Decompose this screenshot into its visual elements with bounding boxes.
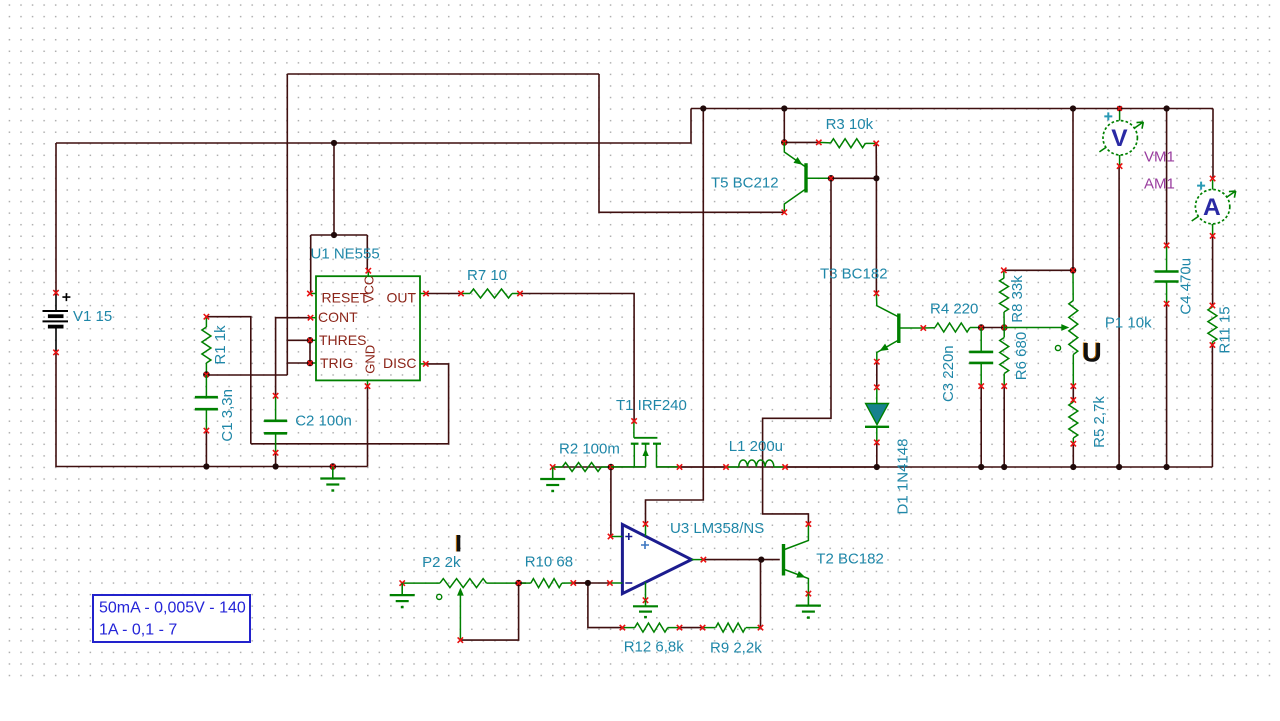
node R3-T3 junction [873,175,879,181]
wire TRIG branch [287,362,310,364]
wire inverting node down to R12 [588,583,623,628]
pin L1 right [782,464,787,469]
node inverting junction [585,580,591,586]
pin P1 bottom [1071,383,1076,388]
node P1 rail junction [1070,105,1076,111]
resistor R2 [553,463,611,472]
resistor R11 [1208,306,1217,346]
pin U1 RESET [310,293,316,295]
pin VM1 minus [1117,163,1122,168]
svg-text:VCC: VCC [362,276,377,303]
resistor R3 [819,139,876,148]
node T5 base junction [828,175,835,182]
pin R3 right [874,141,879,146]
pin R12 right [677,625,682,630]
wire C4 top from rail [1166,109,1168,246]
wire R10 right to inverting node [573,582,588,584]
pin T3 collector [874,291,879,296]
resistor R9 [703,623,761,632]
op-amp U1 NE555 box [316,276,420,380]
resistor R12 [622,623,679,632]
svg-text:50mA - 0,005V - 140: 50mA - 0,005V - 140 [99,600,246,617]
pin U3 inverting input [607,580,612,585]
svg-text:V1 15: V1 15 [73,308,112,325]
pin R3 left [816,140,821,145]
pin T2 collector [806,521,811,526]
pin R5 top [1071,397,1076,402]
svg-text:THRES: THRES [319,332,366,348]
pin battery minus [53,350,58,355]
resistor R1 [202,317,211,375]
wire P2 wiper return [460,583,518,640]
node R2-T1 junction [608,464,615,471]
wire R4 node link [981,327,1004,329]
pin R9 right [758,625,763,630]
wire T5 base to T3 node [831,177,876,179]
wire R7 to T1 gate [520,294,634,422]
pin R10 right [571,580,576,585]
pin C2 top [273,393,278,398]
node top rail junction x784.3 [781,105,787,111]
wire output node to T2 base [761,559,780,561]
wire T5 base node down and to T2 collector [763,178,831,524]
pin T1 drain [677,464,682,469]
svg-text:CONT: CONT [318,309,358,325]
node R1 bottom junction [203,371,210,378]
pin U1 THRES [310,339,316,341]
resistor R7 [461,289,520,298]
svg-text:GND: GND [362,345,377,374]
wire staple right leg to VCC pin [366,235,368,271]
node top rail junction x703.3 [700,105,706,111]
svg-text:AM1: AM1 [1144,176,1175,193]
svg-text:R6 680: R6 680 [1013,332,1030,380]
node bus junction C3 [978,464,984,470]
svg-text:I: I [455,531,462,558]
wire AM1 bottom to R11 top [1212,236,1214,306]
pin C2 bottom [273,450,278,455]
pin U1 OUT [420,293,426,295]
pin T1 gate [631,418,636,423]
potentiometer P2 [402,579,518,641]
ground for U1/C1/C2 bus [330,463,337,470]
svg-text:C2 100n: C2 100n [295,413,352,430]
svg-text:R10 68: R10 68 [525,554,573,571]
wire R1 top to DISC loop [206,317,250,444]
svg-text:R4 220: R4 220 [930,301,978,318]
node T5 emitter junction [781,139,788,146]
node bus junction C1 [203,463,209,469]
wire T5 emitter node to R3 left [784,141,819,143]
pin U1 VCC [367,271,369,277]
node P1 top junction [1070,267,1077,274]
node C4 rail junction [1164,105,1170,111]
pin R2 left [550,464,555,469]
pin R12 left [620,625,625,630]
pin U1 DISC [420,363,426,365]
node bus junction R5 [1070,464,1076,470]
node output junction [758,557,764,563]
ground at U3 V- [645,600,647,605]
pin U1 GND [367,380,369,386]
pin R4 left [921,325,926,330]
pin U1 CONT [311,317,317,319]
transistor T3 BC182 [876,293,923,361]
svg-text:A: A [1203,194,1221,221]
pin U3 V+ [643,521,648,526]
potentiometer P1 [1004,270,1078,386]
wire OUT to R7 [426,293,461,295]
svg-text:T5 BC212: T5 BC212 [711,175,779,192]
wire R9 right up to output node [760,560,762,628]
pin T5 collector [782,210,787,215]
pin D1 cathode [874,440,879,445]
wire R6 bottom to bus [1003,386,1005,467]
text box measurement notes [93,595,250,642]
wire rail corner down to AM1 [1212,109,1214,179]
diode D1 1N4148 [865,387,889,442]
svg-text:C3 220n: C3 220n [940,345,957,402]
wire C3 bottom to bus [980,386,982,467]
svg-text:L1 200u: L1 200u [729,438,783,455]
wire P1 top node riser to top rail [1072,109,1074,271]
svg-text:R12 6,8k: R12 6,8k [624,639,685,656]
pin battery plus [53,290,58,295]
pin P2 wiper [458,637,463,642]
wire T5 emitter node to top rail [783,109,785,143]
svg-text:T3 BC182: T3 BC182 [820,266,888,283]
capacitor C2 [264,396,287,453]
pin L1 left [723,464,728,469]
wire P1 bottom to R5 top [1072,386,1074,400]
svg-text:R2 100m: R2 100m [559,441,620,458]
wire inverting input horizontal [573,582,610,584]
wire long riser x703.3 top rail to op-amp V+ [646,109,704,525]
svg-text:T2 BC182: T2 BC182 [816,551,884,568]
svg-text:C1 3,3n: C1 3,3n [219,389,236,442]
pin R7 left [458,291,463,296]
wire C1 bottom to bus [205,431,207,467]
pin T3 emitter [874,359,879,364]
svg-text:R3 10k: R3 10k [826,116,874,133]
wire output ground bus y467 left of T1 gap [553,466,646,468]
wire THRES-TRIG tie [309,340,311,363]
capacitor C1 [195,375,218,431]
pin R8 top [1001,268,1006,273]
pin R7 right [517,291,522,296]
node P2 right junction [515,580,522,587]
wire R3 right down to T3 collector node [875,143,877,178]
svg-text:P1 10k: P1 10k [1105,315,1152,332]
pin AM1 plus [1210,176,1215,181]
pin R11 top [1210,303,1215,308]
wire R12 to R9 [680,627,703,629]
pin U3 V- [643,598,648,603]
pin R5 bottom [1071,441,1076,446]
svg-text:R8 33k: R8 33k [1009,275,1026,323]
wire DISC loop bottom [251,364,449,444]
svg-text:1A - 0,1 - 7: 1A - 0,1 - 7 [99,622,177,639]
wire output ground bus y467 right of T1 gap [657,466,1213,468]
wire supply rail y143 from battery to riser x691 [56,109,691,144]
transistor T2 BC182 [784,524,809,594]
battery V1 [43,293,71,351]
wire R8/P1 top rail y270.3 [1004,269,1073,271]
wire P2 right to R10 left [519,582,526,584]
wire T3 node down to T3 collector [875,178,877,293]
pin D1 anode [874,385,879,390]
wire R5 bottom to bus [1072,444,1074,467]
svg-text:VM1: VM1 [1144,149,1175,166]
svg-text:U: U [1082,338,1102,368]
ground at R2 left [552,467,554,479]
ammeter AM1 [1192,180,1236,236]
wire vertical x599 down to T5 collector level [599,74,784,212]
resistor R4 [923,323,981,332]
pin U3 non-inverting input [608,534,613,539]
wire top distribution rail y108.5 [691,108,1213,110]
wire R2 node riser down to op-amp inverting path [610,467,612,537]
pin C3 bottom [979,383,984,388]
node bus junction C4 [1164,464,1170,470]
capacitor C3 [969,328,993,387]
pin R9 left [700,625,705,630]
capacitor C4 [1155,245,1179,303]
svg-text:DISC: DISC [383,355,416,371]
svg-text:R11 15: R11 15 [1216,306,1233,353]
svg-text:TRIG: TRIG [320,355,353,371]
pin VM1 plus [1117,106,1123,112]
pin U3 output [701,557,706,562]
pin AM1 minus [1210,233,1215,238]
svg-text:C4 470u: C4 470u [1177,258,1194,315]
wire D1 cathode to output bus [876,442,878,467]
pin C4 bottom [1164,301,1169,306]
svg-text:R1 1k: R1 1k [212,325,229,365]
transistor T1 IRF240 mosfet [611,421,679,467]
wire VCC feed staple above U1 [333,143,335,235]
wire top rail y74 from RESET-branch to T5 collector drop [287,73,599,75]
resistor R8 [1000,270,1009,327]
resistor R5 [1069,400,1078,444]
wire battery positive up to rail [55,143,57,293]
svg-text:V: V [1111,125,1128,152]
wire riser x287.3 from top rail down to THRES/TRIG branch [286,74,288,375]
pin P2 left [400,580,405,585]
node VCC staple junction [331,232,337,238]
wire C4 bottom to bus [1166,304,1168,467]
pin R1 top [204,314,209,319]
pin R6 bottom [1002,383,1007,388]
node R6-R8 junction [1001,324,1008,331]
pin C4 top [1164,243,1169,248]
node bus junction VM1 [1116,464,1122,470]
svg-text:U3 LM358/NS: U3 LM358/NS [670,520,764,537]
wire battery negative to left ground bus [56,352,368,466]
svg-text:R9 2,2k: R9 2,2k [710,640,762,657]
resistor R10 [519,579,574,588]
wire C2 bottom to bus [275,453,277,467]
resistor R6 [1000,328,1009,387]
ground at P2 left [401,583,403,595]
wire staple left leg to RESET pin [310,235,312,294]
svg-text:U1 NE555: U1 NE555 [311,246,380,263]
svg-text:R5 2,7k: R5 2,7k [1091,396,1108,448]
pin R11 bottom [1210,342,1215,347]
wire VM1 bottom down to bus [1118,166,1120,467]
node supply rail junction x334 [331,140,337,146]
pin C1 bottom [204,428,209,433]
wire R11 bottom to bus [1211,345,1213,467]
node R4-C3 junction [978,324,985,331]
wire U1 GND pin down to bus [367,386,369,466]
node bus junction R6 [1001,464,1007,470]
node bus junction C2 [273,463,279,469]
svg-text:OUT: OUT [387,290,417,306]
pin U1 TRIG [310,362,316,364]
transistor T5 BC212 [784,142,829,212]
svg-text:R7 10: R7 10 [467,267,507,284]
wire THRES branch [287,339,310,341]
wire L1 right to D1 node [785,466,877,468]
wire T3 emitter to D1 anode [876,362,878,388]
svg-text:D1 1N4148: D1 1N4148 [895,439,912,515]
voltmeter VM1 [1099,109,1143,167]
ground at T2 emitter [807,594,809,606]
pin T2 emitter [806,591,811,596]
wire CONT to C2 [276,318,311,396]
wire T1 drain to bus x-mark segment [680,466,726,468]
inductor L1 [726,460,785,467]
wire op-amp output to T2 base [703,559,761,561]
node bus junction D1 [874,464,880,470]
op-amp U3 LM358/NS [610,524,704,600]
wire R1-bottom to riser y375 [206,374,287,376]
svg-text:T1 IRF240: T1 IRF240 [616,397,687,414]
